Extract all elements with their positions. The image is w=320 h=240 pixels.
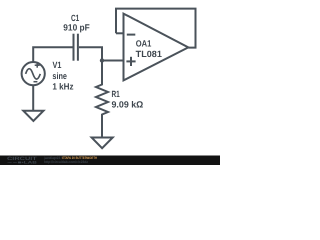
svg-text:1 kHz: 1 kHz xyxy=(52,82,74,92)
svg-text:910 pF: 910 pF xyxy=(63,22,90,32)
svg-text:∼∼■•LAB: ∼∼■•LAB xyxy=(7,161,38,165)
svg-text:TL081: TL081 xyxy=(136,49,162,59)
svg-text:OA1: OA1 xyxy=(136,38,152,48)
svg-text:http://circuitlab.com/c/c23dz: http://circuitlab.com/c/c23dz xyxy=(44,160,88,164)
svg-text:sine: sine xyxy=(52,71,67,81)
svg-text:9.09 kΩ: 9.09 kΩ xyxy=(112,100,144,110)
svg-text:R1: R1 xyxy=(112,89,120,99)
svg-text:V1: V1 xyxy=(53,60,62,70)
svg-text:C1: C1 xyxy=(71,13,79,23)
